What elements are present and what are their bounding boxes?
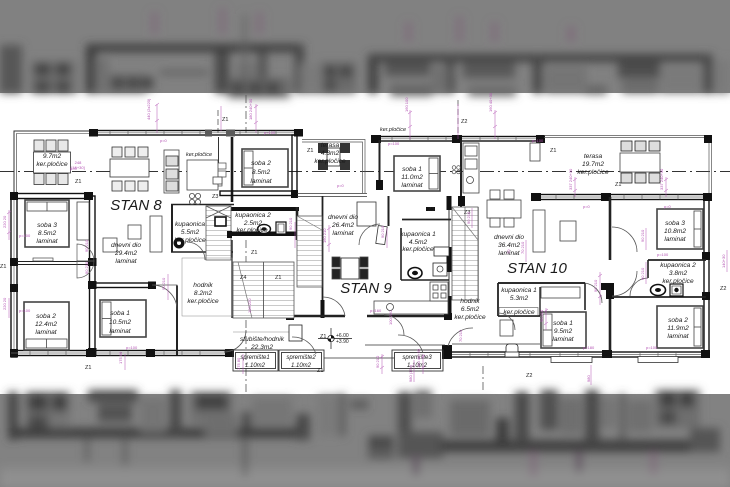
- svg-text:2.5m2: 2.5m2: [243, 220, 263, 227]
- svg-text:hodnik: hodnik: [193, 282, 213, 289]
- svg-text:8.2m2: 8.2m2: [194, 290, 213, 297]
- wall y197 x533-712 (terrace 19.7 bottom): [531, 193, 712, 201]
- level marker text: [336, 333, 349, 345]
- svg-text:laminat: laminat: [664, 236, 686, 243]
- svg-text:kupaonica: kupaonica: [175, 221, 205, 228]
- svg-text:8.5m2: 8.5m2: [252, 169, 271, 176]
- svg-text:Z2: Z2: [526, 373, 532, 379]
- svg-text:p=100: p=100: [19, 233, 31, 238]
- svg-text:Z2: Z2: [461, 119, 467, 125]
- svg-text:kupaonica 2: kupaonica 2: [660, 262, 696, 269]
- closet shelves STAN8: [214, 163, 226, 169]
- svg-text:160 210: 160 210: [322, 228, 327, 243]
- bottom blurred band background: [0, 394, 730, 487]
- svg-text:Z1: Z1: [275, 275, 281, 281]
- dining table STAN8: [110, 159, 149, 177]
- STAN9 kitchen: [374, 301, 448, 314]
- terrace 19.7 thin top line: [544, 136, 712, 138]
- svg-text:STAN 10: STAN 10: [507, 260, 567, 277]
- bottom wall left (x11-233): [11, 349, 234, 357]
- door arc dnevni STAN10: [585, 283, 602, 303]
- door arc STAN9 entry: [323, 297, 345, 316]
- svg-text:160 100: 160 100: [404, 97, 409, 112]
- door arc soba2 STAN10: [612, 271, 637, 296]
- left exterior wall (thick): [11, 193, 17, 357]
- svg-text:soba 1: soba 1: [402, 166, 422, 173]
- top wall right section (x374-544): [371, 135, 545, 143]
- svg-text:90 210: 90 210: [84, 239, 89, 252]
- STAN10 soba2 bed: [657, 306, 703, 348]
- svg-text:980: 980: [586, 375, 591, 382]
- svg-text:hodnik: hodnik: [460, 298, 480, 305]
- svg-text:90 210: 90 210: [380, 225, 385, 238]
- svg-text:laminat: laminat: [36, 238, 58, 245]
- wall y204.5 x171-234: [171, 204, 234, 206]
- door arc soba3 STAN10: [612, 227, 637, 252]
- stan10 hodnik walls: [477, 207, 479, 300]
- STAN10 soba3 bed: [657, 209, 703, 249]
- vertical dashed axis x=246 top: [245, 95, 247, 133]
- STAN10 kitchen sink circles: [452, 166, 456, 170]
- terrace 9.7 table: [34, 152, 71, 173]
- column top right terrace: [704, 135, 712, 143]
- svg-text:p=100: p=100: [657, 252, 669, 257]
- door arc soba1 STAN8: [152, 285, 177, 310]
- svg-text:Z3: Z3: [212, 194, 218, 200]
- labels spremiste 1-3: [240, 355, 432, 369]
- soba1 top wall (y285 x89-180): [95, 283, 155, 288]
- kupaonica STAN8 fixtures: [174, 238, 185, 249]
- bottom blurred plan fragment: [0, 390, 730, 487]
- svg-text:Z2: Z2: [720, 286, 726, 292]
- svg-text:p=100: p=100: [126, 345, 138, 350]
- kitchen STAN8 counter: [164, 150, 179, 193]
- terasa 4.3 thin walls: [302, 140, 365, 194]
- central staircase right flight: [297, 216, 322, 287]
- svg-text:p=0: p=0: [160, 138, 168, 143]
- bottom wall right (x444-709): [442, 345, 709, 359]
- bed soba2 STAN8 (bottom-left): [24, 302, 69, 350]
- svg-text:p=180: p=180: [583, 345, 595, 350]
- svg-text:90 210: 90 210: [593, 279, 598, 292]
- svg-text:12.4m2: 12.4m2: [35, 321, 57, 328]
- svg-text:ker.pločice: ker.pločice: [174, 237, 206, 244]
- svg-text:soba 3: soba 3: [665, 220, 685, 227]
- svg-text:70 210: 70 210: [520, 241, 525, 254]
- svg-text:p=100: p=100: [19, 308, 31, 313]
- kupaonica1 stan9 walls: [400, 228, 402, 280]
- svg-text:175 80: 175 80: [236, 357, 241, 370]
- svg-text:laminat: laminat: [401, 182, 423, 189]
- svg-text:kupaonica 2: kupaonica 2: [235, 212, 271, 219]
- svg-text:90 210: 90 210: [539, 309, 544, 322]
- svg-text:ker.pločice: ker.pločice: [503, 309, 535, 316]
- right block left wall x612: [609, 197, 612, 260]
- svg-text:ker.pločice: ker.pločice: [577, 169, 609, 176]
- svg-text:p=0: p=0: [664, 204, 672, 209]
- svg-text:175 80: 175 80: [118, 351, 123, 364]
- svg-text:90 210: 90 210: [161, 277, 166, 290]
- svg-text:stubište/hodnik: stubište/hodnik: [240, 336, 285, 343]
- svg-text:terasa: terasa: [584, 153, 603, 160]
- bed soba1 STAN8: [100, 300, 146, 337]
- PLAN: [0, 92, 730, 392]
- terrace 9.7 chairs top row: [34, 140, 44, 151]
- STAN9 kupaonica fixtures: [408, 268, 422, 279]
- svg-text:90 210: 90 210: [84, 261, 89, 274]
- svg-text:laminat: laminat: [115, 258, 137, 265]
- svg-text:36.4m2: 36.4m2: [498, 242, 520, 249]
- blurred pink marks bottom: [530, 452, 537, 476]
- svg-text:spremište1: spremište1: [240, 355, 269, 361]
- svg-text:8.5m2: 8.5m2: [38, 230, 57, 237]
- svg-text:dnevni dio: dnevni dio: [494, 234, 524, 241]
- svg-text:STAN 8: STAN 8: [110, 197, 162, 214]
- pink dimension lines with ticks: [7, 103, 727, 385]
- soba2 STAN8 bed (top area): [242, 149, 288, 187]
- svg-text:terasa: terasa: [321, 142, 340, 149]
- STAN8 wardrobe next rooms: [77, 202, 89, 240]
- terasa 19.7 table: [620, 153, 660, 172]
- svg-text:19.7m2: 19.7m2: [582, 161, 604, 168]
- svg-text:70 210: 70 210: [458, 329, 463, 342]
- vertical dashed axis x=218 top (Z1): [217, 110, 219, 133]
- svg-text:90 210: 90 210: [288, 217, 293, 230]
- vertical dashed axis x=458 top (Z2): [457, 100, 459, 139]
- stan9 kitchen wall x455: [460, 140, 462, 207]
- door arc hodnik STAN8: [224, 330, 246, 352]
- STAN10 kupaonica1 fixtures: [500, 320, 513, 336]
- svg-text:140+30: 140+30: [721, 254, 726, 268]
- svg-text:p=100: p=100: [264, 130, 276, 135]
- STAN8 living: sofa: [150, 216, 162, 252]
- wall y195 x297-365 below terasa 4.3: [297, 194, 367, 197]
- svg-text:980 (15x): 980 (15x): [408, 364, 413, 382]
- stan9 soba1 bottom wall y219 x402-451: [402, 219, 451, 221]
- door arc kupaonica2 STAN10: [630, 278, 648, 296]
- svg-text:Z1: Z1: [307, 148, 313, 154]
- svg-text:100 220: 100 220: [388, 310, 393, 325]
- main horizontal dashed axis: [0, 171, 730, 173]
- svg-text:ker.pločice: ker.pločice: [662, 278, 694, 285]
- terasa 4.3 furniture: [327, 148, 340, 166]
- spremiste boxes: [180, 332, 443, 371]
- STAN10 sofa: [533, 210, 545, 252]
- dining table STAN8 chairs bottom: [112, 181, 122, 191]
- vertical dashed axis x=246 through stairs: [245, 240, 247, 392]
- wall x292-297 (right of soba2 STAN8): [292, 135, 297, 196]
- left stair flight next to bathroom: [206, 206, 232, 260]
- window sill soba2 STAN10: [638, 357, 678, 363]
- top blurred plan fragment: [0, 8, 730, 98]
- terrace 19.7 right thin wall: [709, 137, 712, 196]
- vertical dashed axis x=483 bottom: [482, 366, 484, 392]
- svg-text:ker.pločice: ker.pločice: [236, 227, 268, 234]
- STAN10 kupaonica2 fixtures: [651, 285, 666, 296]
- svg-text:Z3: Z3: [428, 207, 434, 213]
- door arc kupaonica STAN8: [187, 242, 205, 260]
- door arc kupaonica1 STAN10: [498, 313, 515, 330]
- svg-text:1.10m2: 1.10m2: [291, 363, 312, 369]
- svg-text:Z1: Z1: [222, 117, 228, 123]
- door arc STAN10 entry: [448, 328, 473, 346]
- svg-text:p=100: p=100: [388, 141, 400, 146]
- svg-text:5.5m2: 5.5m2: [181, 229, 200, 236]
- svg-text:Z1: Z1: [251, 250, 257, 256]
- svg-text:6.5m2: 6.5m2: [461, 306, 480, 313]
- svg-text:p=0: p=0: [337, 183, 345, 188]
- stan9 bottom wall y316 x292-455: [290, 315, 345, 318]
- svg-text:ker.pločice: ker.pločice: [187, 298, 219, 305]
- svg-text:90 210: 90 210: [640, 267, 645, 280]
- svg-text:Z1: Z1: [0, 264, 6, 270]
- svg-text:Z1: Z1: [85, 365, 91, 371]
- svg-text:ker.pločice: ker.pločice: [36, 161, 68, 168]
- window sill soba1 STAN10: [551, 357, 592, 363]
- closet partition x218 STAN8: [218, 137, 220, 163]
- terrace 9.7 thin walls top-left: [14, 131, 92, 196]
- shower closet stan10: [541, 287, 580, 298]
- svg-text:160 40+30: 160 40+30: [416, 348, 421, 368]
- svg-text:160 40+30: 160 40+30: [488, 92, 493, 112]
- STAN10 dining table: [487, 200, 521, 218]
- door arc soba2 bottom STAN8: [77, 261, 94, 278]
- svg-text:70: 70: [506, 249, 511, 254]
- kupaonica2 stan10 walls: [648, 259, 706, 261]
- dining table STAN8 chairs top: [112, 147, 122, 157]
- svg-text:90 210: 90 210: [375, 355, 380, 368]
- kitchen island STAN8: [187, 160, 218, 190]
- svg-text:11.0m2: 11.0m2: [401, 174, 423, 181]
- level marker symbol: [318, 328, 352, 349]
- svg-text:26.4m2: 26.4m2: [331, 222, 354, 229]
- wall x171 kupaonica STAN8 left: [171, 205, 173, 252]
- svg-text:Z4: Z4: [240, 275, 246, 281]
- kitchen sink circles: [189, 193, 194, 198]
- svg-text:soba 3: soba 3: [37, 222, 57, 229]
- stan9 soba1 west wall x379: [379, 140, 381, 190]
- svg-text:p=0: p=0: [70, 166, 78, 171]
- inner line above bottom right wall: [452, 343, 540, 345]
- svg-text:220 20: 220 20: [2, 297, 7, 310]
- interior vertical wall x89-95 (y193-355): [90, 196, 96, 354]
- door arc corridor mid: [384, 315, 404, 335]
- svg-text:ker.pločice: ker.pločice: [402, 246, 434, 253]
- washing machine near wall STAN10: [289, 325, 302, 341]
- svg-text:90 210: 90 210: [466, 211, 471, 224]
- svg-text:22.3m2: 22.3m2: [250, 344, 273, 351]
- STAN9 table (2x2 dark chairs): [332, 257, 368, 279]
- svg-text:laminat: laminat: [552, 336, 574, 343]
- svg-text:kupaonica 1: kupaonica 1: [400, 231, 436, 238]
- svg-text:29.4m2: 29.4m2: [114, 250, 137, 257]
- svg-text:dnevni dio: dnevni dio: [328, 214, 358, 221]
- svg-text:STAN 9: STAN 9: [340, 280, 392, 297]
- svg-text:220 20: 220 20: [2, 215, 7, 228]
- svg-text:Z1: Z1: [550, 148, 556, 154]
- svg-text:kupaonica 1: kupaonica 1: [501, 287, 537, 294]
- kupaonica2 STAN8 block walls: [227, 207, 299, 211]
- svg-text:11.9m2: 11.9m2: [667, 325, 689, 332]
- top wall left section (x92-302) with window lines: [89, 129, 303, 137]
- STAN10 kitchen left: [463, 143, 479, 193]
- hodnik lower-left hatch: [182, 258, 232, 316]
- kupaonica1 stan10 walls: [498, 282, 585, 284]
- kupaonica2 STAN8 fixtures: [258, 225, 271, 234]
- svg-text:9.5m2: 9.5m2: [554, 328, 573, 335]
- svg-text:337 240+30: 337 240+30: [659, 168, 664, 190]
- svg-text:100 220: 100 220: [247, 298, 252, 313]
- svg-text:Z1: Z1: [75, 179, 81, 185]
- svg-text:1.10m2: 1.10m2: [245, 363, 266, 369]
- svg-text:laminat: laminat: [109, 328, 131, 335]
- blurred pink dim marks top: [151, 12, 158, 34]
- STAN9 soba1 bed: [394, 156, 440, 191]
- wall y252 x171-233 (hodnik top): [171, 251, 233, 253]
- right stairs shaft walls: [448, 205, 450, 318]
- svg-text:p=160: p=160: [370, 308, 382, 313]
- STAN10 soba1 bed: [541, 312, 586, 348]
- door arc soba3 STAN8: [77, 244, 94, 261]
- right exterior wall x706: [704, 197, 709, 357]
- svg-text:5.3m2: 5.3m2: [510, 295, 529, 302]
- svg-text:440 (2x220): 440 (2x220): [146, 98, 151, 120]
- svg-text:10.5m2: 10.5m2: [109, 319, 131, 326]
- svg-text:p=0: p=0: [583, 204, 591, 209]
- svg-text:laminat: laminat: [667, 333, 689, 340]
- wall y193 x220-297 (below soba2 STAN8): [220, 191, 297, 196]
- svg-text:Z1: Z1: [320, 334, 326, 340]
- bed soba3 STAN8: [25, 200, 69, 247]
- svg-text:laminat: laminat: [35, 329, 57, 336]
- svg-text:dnevni dio: dnevni dio: [111, 242, 141, 249]
- door arc stubiste left: [292, 337, 316, 354]
- wall x232 soba2 west STAN8: [231, 137, 234, 202]
- wall between soba3 and soba2 (y261 x11-92) with window: [17, 258, 89, 265]
- door arc kupaonica1 STAN9: [359, 224, 380, 245]
- svg-text:laminat: laminat: [332, 230, 354, 237]
- svg-text:+3.90: +3.90: [336, 339, 349, 345]
- top blurred band background: [0, 0, 730, 93]
- svg-text:90 210: 90 210: [640, 229, 645, 242]
- svg-text:4.5m2: 4.5m2: [409, 239, 428, 246]
- svg-text:laminat: laminat: [250, 178, 272, 185]
- svg-text:p=100: p=100: [532, 138, 544, 143]
- central stair shaft walls: [231, 240, 233, 318]
- svg-text:9.7m2: 9.7m2: [43, 153, 62, 160]
- svg-text:Z1: Z1: [317, 368, 323, 374]
- svg-text:spremište2: spremište2: [286, 355, 316, 361]
- svg-text:soba 1: soba 1: [553, 320, 573, 327]
- svg-text:soba 2: soba 2: [668, 317, 688, 324]
- svg-text:soba 2: soba 2: [251, 160, 271, 167]
- svg-text:3.8m2: 3.8m2: [669, 270, 688, 277]
- door arc stubiste right: [398, 335, 423, 353]
- terrace 9.7 chairs bottom row: [34, 174, 44, 185]
- svg-text:337 240+30: 337 240+30: [568, 168, 573, 190]
- STAN9 sofa: [357, 202, 376, 226]
- svg-text:ker.pločice: ker.pločice: [314, 158, 346, 165]
- svg-text:Z1: Z1: [615, 182, 621, 188]
- wall under terrace 9.7 (y196 x11-92): [11, 194, 92, 199]
- svg-text:ker.pločice: ker.pločice: [454, 314, 486, 321]
- svg-text:180 240+30: 180 240+30: [248, 98, 253, 120]
- central staircase lower block: [233, 262, 294, 318]
- svg-text:ker.pločice: ker.pločice: [380, 127, 406, 133]
- svg-text:ker.pločice: ker.pločice: [186, 152, 212, 158]
- right staircase: [452, 207, 478, 300]
- svg-text:10.8m2: 10.8m2: [664, 228, 686, 235]
- svg-text:4.3m2: 4.3m2: [321, 150, 340, 157]
- svg-text:p=100: p=100: [646, 345, 658, 350]
- svg-text:soba 2: soba 2: [36, 313, 56, 320]
- svg-text:soba 1: soba 1: [110, 310, 130, 317]
